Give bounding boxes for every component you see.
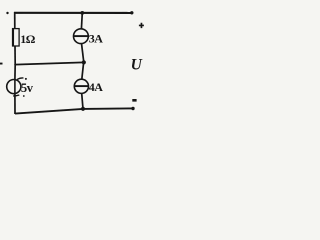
current source I2 4A (circle, bar perpendicular to terminals) [74,79,88,93]
minus terminal label [132,99,136,102]
wire left vertical below resistor to middle node [14,46,16,65]
voltage source U1 5V (circle, bar parallel to terminals) [7,80,21,94]
svg-text:4A: 4A [89,80,104,94]
current source I1 3A (circle, bar perpendicular to terminals) [74,29,89,44]
polarity speck dot above voltage source [25,78,27,80]
svg-text:3A: 3A [89,32,104,46]
background [0,0,153,120]
polarity mark above voltage source (swoosh) [17,78,24,80]
wire 3A bottom to middle junction [82,43,84,62]
resistor R 1ohm [13,29,20,46]
node junction dot top (branch to 3A) [80,11,84,15]
svg-text:1Ω: 1Ω [20,32,36,46]
node junction dot bottom [81,107,85,111]
wire middle junction down to 4A [82,63,84,80]
plus terminal label [139,23,144,28]
wire top horizontal [14,12,133,14]
node junction dot middle [82,60,86,64]
stray dot top-left [6,12,8,14]
svg-text:U: U [131,56,143,73]
svg-text:5v: 5v [21,81,34,95]
wire 4A bottom to bottom wire [82,93,83,109]
wire left vertical from middle node to voltage source [14,64,16,80]
wire left vertical below voltage source to bottom-left corner [14,93,16,114]
wire middle horizontal [15,62,84,64]
node top-right terminal dot [130,11,133,14]
wire bottom horizontal (slanted, scan skew) [15,108,133,113]
stray tick at left image edge [0,63,3,65]
polarity speck dot below voltage source [23,95,25,97]
polarity tick below voltage source [13,95,19,96]
wire right branch: top wire down to 3A [80,13,83,30]
wire left vertical above resistor [14,12,16,29]
node bottom-right terminal dot [131,107,134,110]
